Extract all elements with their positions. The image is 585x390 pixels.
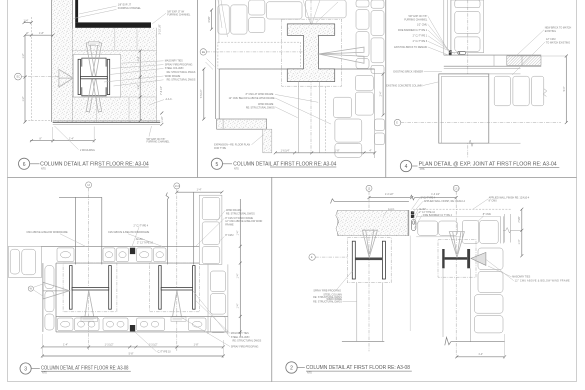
brace label box beam 1 — [81, 317, 98, 321]
svg-text:7'-5 1/4": 7'-5 1/4" — [160, 86, 163, 95]
leader 2 MOULDING — [55, 126, 79, 150]
svg-text:2'-2": 2'-2" — [137, 56, 140, 61]
centerline col 2 — [176, 189, 178, 351]
wall edge below panel 5 — [218, 69, 220, 119]
wind brace V beam 2 (gray) — [173, 290, 182, 317]
expansion joint hardware panel 2 — [411, 211, 414, 214]
sheet border right — [576, 0, 578, 382]
dash-dot rect around beam — [282, 19, 342, 86]
svg-text:2" CJ TYPE 4: 2" CJ TYPE 4 — [134, 224, 149, 227]
break zigzag right panel 4 — [543, 89, 547, 97]
svg-text:NTS: NTS — [41, 168, 46, 171]
svg-text:EXISTING: EXISTING — [545, 30, 556, 33]
column below beam 2 — [442, 268, 444, 337]
wind brace V beam 1 (gray) — [85, 290, 94, 317]
band 2 blocks — [58, 318, 207, 331]
steel column beam 1 (web dark) — [355, 258, 382, 261]
dark steel angle bar top (horizontal leg) — [75, 22, 151, 27]
steel column beam 2 (web) — [445, 257, 468, 260]
CMU blocks right mid panel 5 — [355, 75, 373, 90]
svg-text:NTS: NTS — [307, 371, 312, 374]
column bottom edge with break — [439, 140, 521, 146]
expansion joint block bottom (dark) — [130, 325, 135, 331]
right vertical dim panel 2 — [521, 209, 523, 256]
svg-text:RE: STRUCTURAL DWGS: RE: STRUCTURAL DWGS — [233, 340, 262, 343]
svg-text:COLUMN DETAIL AT FIRST FLOOR R: COLUMN DETAIL AT FIRST FLOOR RE: A3-04 — [233, 162, 336, 168]
svg-text:EXISTING BRICK VENEER: EXISTING BRICK VENEER — [393, 70, 423, 73]
svg-text:SPRAY FIRE-PROOFING: SPRAY FIRE-PROOFING — [165, 63, 193, 66]
svg-text:1'-4": 1'-4" — [237, 230, 240, 235]
bottom dim panel 5 — [275, 152, 374, 154]
annotation leader fan panel 6 — [121, 61, 164, 63]
steel column I-beam plan (speckled) — [287, 24, 334, 82]
floor slab section panel 5 — [217, 119, 267, 129]
sheet border bottom — [8, 381, 577, 383]
dim 8 / 1'-8 — [25, 34, 53, 36]
brick band plan panel 4 — [444, 54, 541, 56]
svg-text:FIRE BARRIER CJ TYPE 4: FIRE BARRIER CJ TYPE 4 — [423, 214, 453, 217]
separator line panels 6/5 — [197, 0, 199, 177]
masonry band 1 panel 3 — [42, 245, 200, 247]
svg-text:MASONRY TIES: MASONRY TIES — [165, 60, 183, 63]
dim line 2 panel 3 — [42, 355, 223, 357]
svg-text:8": 8" — [27, 32, 29, 35]
existing wall lines panel 4 — [443, 0, 445, 55]
CMU wall elevation panel 6 — [73, 28, 157, 122]
svg-text:2 MOULDING: 2 MOULDING — [80, 149, 95, 152]
leaders from top panel 5 — [303, 0, 311, 24]
broken line right panel 2 — [503, 228, 522, 234]
top dim with break panel 2 — [369, 197, 410, 199]
steel column beam 1 (flange right) — [382, 241, 385, 279]
svg-text:5: 5 — [216, 162, 219, 168]
grid bubble panel 4 — [394, 119, 401, 126]
svg-text:1'-3 1/2": 1'-3 1/2" — [105, 343, 114, 346]
bottom dim 8 / 1'-4 — [30, 140, 94, 142]
expansion joint hardware panel 4 — [449, 50, 452, 52]
svg-text:1'-3 1/2": 1'-3 1/2" — [431, 193, 440, 196]
svg-text:RE: STRUCTURAL DWGS: RE: STRUCTURAL DWGS — [226, 213, 255, 216]
CMU plan blocks right strips — [356, 0, 369, 7]
svg-text:EC: EC — [17, 76, 21, 79]
masonry band 2 panel 3 — [56, 315, 228, 317]
svg-text:1'-8": 1'-8" — [194, 343, 199, 346]
CMU block row right of joint — [416, 215, 500, 217]
dim 1'-4 top left — [24, 22, 31, 24]
svg-text:2" CJ TYPE 10: 2" CJ TYPE 10 — [137, 242, 154, 245]
svg-text:5'-4": 5'-4" — [563, 86, 566, 91]
leader 5/8 EXP bottom right — [149, 126, 152, 137]
steel column H beam 1 (flange left) — [70, 266, 73, 310]
svg-text:TO MATCH EXISTING: TO MATCH EXISTING — [546, 42, 570, 45]
right vertical dim panel 4 — [565, 56, 567, 123]
svg-text:MASONRY TIES: MASONRY TIES — [512, 276, 530, 279]
right vertical dim panel 3 — [239, 199, 241, 337]
svg-text:12" CMU ABOVE & BELOW WIND FRA: 12" CMU ABOVE & BELOW WIND FRAME — [515, 280, 570, 283]
gusset bowtie beam 1 (gray) — [43, 282, 70, 299]
svg-text:PLAN DETAIL @ EXP. JOINT AT FI: PLAN DETAIL @ EXP. JOINT AT FIRST FLOOR … — [419, 162, 557, 168]
svg-text:8" CMU: 8" CMU — [483, 213, 492, 216]
column below beam 1 — [356, 283, 358, 342]
svg-text:EXISTING BRICK TO REMAIN: EXISTING BRICK TO REMAIN — [394, 46, 427, 49]
grid bubble col 1 panel 3 — [86, 182, 92, 188]
title bubble 5 — [211, 158, 222, 169]
left vertical dim panel 5 — [203, 69, 205, 119]
steel column beam 2 (flange left) — [442, 249, 444, 268]
centerline col 1 — [88, 188, 90, 351]
svg-text:FURRING CHANNEL: FURRING CHANNEL — [404, 19, 428, 22]
separator line panels 5/4 — [385, 0, 387, 177]
svg-text:NTS: NTS — [42, 372, 47, 375]
new brick hatched block — [507, 56, 541, 66]
X wind brace (gray) bar 2 — [86, 42, 102, 112]
leader fan panel 4 — [428, 16, 448, 49]
svg-text:1'-4": 1'-4" — [69, 137, 74, 140]
svg-text:4": 4" — [369, 149, 371, 152]
svg-text:RE: STRUCTURAL DWGS: RE: STRUCTURAL DWGS — [167, 79, 196, 82]
dark steel angle bar top (vertical leg) — [75, 0, 78, 22]
grid bubble col 2 panel 3 — [174, 183, 180, 189]
AAC slab band panel 2 — [338, 210, 409, 235]
svg-text:1'-4": 1'-4" — [518, 239, 521, 244]
svg-text:3'-10 1/8": 3'-10 1/8" — [159, 24, 162, 34]
svg-text:5'-8": 5'-8" — [129, 353, 134, 356]
right vertical dim panel 5 — [382, 74, 384, 115]
svg-text:2" CJ TYPE 4: 2" CJ TYPE 4 — [421, 196, 436, 199]
wall face line below AAC band — [409, 236, 411, 331]
svg-text:COLUMN DETAIL AT FIRST FLOOR R: COLUMN DETAIL AT FIRST FLOOR RE: A3-08 — [41, 366, 129, 372]
centerline existing column panel 4 — [467, 0, 469, 158]
column strip 2 above (with break) — [166, 193, 169, 265]
svg-text:3: 3 — [24, 367, 27, 373]
svg-text:CMU ABOVE & BELOW WINDFRAME: CMU ABOVE & BELOW WINDFRAME — [26, 231, 68, 234]
steel column H section (flange right) — [107, 59, 109, 94]
top dim 1'-4 panel 3 — [177, 191, 222, 193]
svg-text:1'-8": 1'-8" — [39, 32, 44, 35]
steel column H beam 1 (web) — [72, 287, 109, 290]
svg-text:12" CMU BELOW & ABOVE WIND FRA: 12" CMU BELOW & ABOVE WIND FRAME — [229, 97, 275, 100]
floor line col 2 with break — [445, 337, 505, 345]
svg-text:CMU ABOVE & BELOW WINDFRAME: CMU ABOVE & BELOW WINDFRAME — [108, 231, 150, 234]
masonry anchor channel below web — [82, 87, 106, 96]
svg-text:2" CJ TYPE 1: 2" CJ TYPE 1 — [413, 35, 428, 38]
svg-text:A.A.C.: A.A.C. — [166, 98, 173, 101]
svg-text:APPLIED WALL FINISH, RE: 12/A1: APPLIED WALL FINISH, RE: 12/A10-4 — [424, 200, 466, 203]
svg-text:1'-3 1/2": 1'-3 1/2" — [385, 193, 394, 196]
wind brace V beam 2 (gray) panel 2 — [449, 232, 464, 258]
svg-text:FURRING CHANNEL: FURRING CHANNEL — [167, 14, 191, 17]
steel column H beam 2 (flange left) — [159, 266, 162, 310]
svg-text:EXISTING CONCRETE COLUMN: EXISTING CONCRETE COLUMN — [386, 84, 423, 87]
wall face line panel 5 — [215, 0, 217, 119]
bottom dim panel 2 — [457, 356, 505, 358]
steel column H beam 2 (web) — [161, 287, 192, 290]
leaders at wall base panel 5 — [207, 59, 215, 67]
sheet border left — [7, 0, 9, 382]
svg-text:FURRING CHANNEL: FURRING CHANNEL — [118, 7, 142, 10]
svg-text:13.3: 13.3 — [175, 185, 180, 188]
svg-text:STEEL COLUMN: STEEL COLUMN — [165, 67, 184, 70]
svg-text:WIND FRAME: WIND FRAME — [165, 75, 181, 78]
dashed CMU rect below/above wind frame — [218, 42, 301, 69]
svg-text:1'-6 1/4": 1'-6 1/4" — [281, 149, 290, 152]
svg-text:8" CMU: 8" CMU — [489, 200, 498, 203]
CMU plan blocks top-left — [218, 5, 229, 34]
steel column H section (web) — [81, 76, 108, 78]
svg-text:6: 6 — [23, 162, 26, 168]
wall sill lines — [53, 120, 161, 122]
CMU joint lines panel 6 — [73, 49, 157, 51]
column strip below floor panel 5 — [263, 129, 272, 153]
annotation leaders panel 5 — [275, 94, 318, 102]
svg-text:STEEL COLUMN: STEEL COLUMN — [231, 336, 250, 339]
svg-text:1'-2": 1'-2" — [22, 96, 25, 101]
svg-text:NTS: NTS — [420, 168, 425, 171]
wind frame gusset bowtie (gray) — [59, 69, 73, 87]
svg-text:FRAME: FRAME — [225, 223, 234, 226]
svg-text:7'-5 1/4": 7'-5 1/4" — [200, 89, 203, 98]
CMU strip panel 4 — [451, 0, 484, 53]
svg-text:1'-4": 1'-4" — [237, 273, 240, 278]
CMU plan blocks right panel 4 — [494, 76, 510, 106]
steel column beam 2 (flange right) — [467, 249, 470, 268]
masonry wall strip (section) panel 6 — [52, 0, 73, 122]
svg-text:RE: STRUCTURAL DWGS: RE: STRUCTURAL DWGS — [246, 107, 275, 110]
svg-text:8" CMU: 8" CMU — [225, 234, 234, 237]
svg-text:MASONRY TIES: MASONRY TIES — [231, 332, 249, 335]
wall line below band — [444, 68, 521, 70]
svg-text:2: 2 — [290, 366, 293, 372]
column blockout white rect panel 6 — [73, 55, 121, 98]
grid bubble col 2 panel 2 — [453, 185, 459, 191]
left CMU strip panel 3 — [42, 263, 44, 332]
steel column H section (flange left) — [78, 59, 80, 94]
svg-text:A.A.C.: A.A.C. — [388, 208, 395, 211]
right CMU strip 1 panel 3 — [199, 195, 222, 264]
wall top line panel 5 — [219, 68, 374, 70]
dash-dot rect beam 1 — [63, 263, 117, 312]
floor line col 1 — [342, 340, 384, 342]
separator line panels 3/2 — [271, 177, 273, 381]
dashed face line — [30, 17, 32, 121]
svg-text:1 1/2": 1 1/2" — [161, 116, 164, 122]
svg-text:2'-4": 2'-4" — [380, 91, 383, 96]
svg-text:1'-4": 1'-4" — [197, 189, 202, 192]
column lines below beam panel 5 — [298, 82, 300, 153]
svg-text:13.3: 13.3 — [454, 187, 459, 190]
svg-text:CJ TYPE 10: CJ TYPE 10 — [158, 351, 172, 354]
column strip 1 above — [59, 196, 102, 198]
title bubble 6 — [19, 158, 30, 169]
narrow CMU strip panel 2 — [503, 214, 505, 243]
svg-text:FIRE BARRIER CJ TYPE 1: FIRE BARRIER CJ TYPE 1 — [398, 29, 428, 32]
dash-dot rect beam 2 — [150, 263, 200, 312]
dash-dot rect beam 2 panel 2 — [438, 239, 476, 277]
small dim top left panel 5 — [211, 10, 213, 29]
X wind brace (gray) bar 1 — [86, 42, 102, 112]
wind brace bowtie (gray) panel 5 — [319, 47, 365, 54]
title bubble 3 — [20, 363, 31, 374]
existing concrete column panel 4 — [439, 74, 489, 143]
centerline col 2 panel 2 — [455, 191, 457, 358]
vertical dim left panel 6 — [24, 35, 26, 122]
wind brace V beam 1 (gray) panel 2 — [362, 230, 377, 257]
CMU block column right panel 2 — [478, 248, 503, 270]
steel column H beam 1 (flange right) — [109, 266, 112, 310]
leaders to beam 2 — [195, 300, 230, 333]
svg-text:1/2" CMU: 1/2" CMU — [417, 23, 428, 26]
masonry band 1 left tall segment — [9, 246, 42, 277]
title bubble 2 — [286, 362, 297, 373]
svg-text:1'-4": 1'-4" — [478, 353, 483, 356]
svg-text:FOR TYPE: FOR TYPE — [214, 147, 226, 150]
right CMU strip 2 panel 3 — [207, 264, 209, 334]
centerline col 1 panel 2 — [368, 191, 370, 351]
svg-text:1'-8": 1'-8" — [335, 149, 340, 152]
inner vertical dim panel 6 — [139, 51, 141, 121]
steel column beam 1 (flange left) — [352, 241, 355, 279]
svg-text:8" CMU AT WIND FRAME: 8" CMU AT WIND FRAME — [246, 93, 274, 96]
steel column H beam 2 (flange right) — [193, 266, 196, 310]
grid bubble EC — [15, 73, 22, 80]
ceiling line with break — [331, 199, 409, 204]
svg-text:NTS: NTS — [234, 168, 239, 171]
centerline vertical beam 5 — [310, 0, 312, 153]
svg-text:7 5/8": 7 5/8" — [518, 216, 521, 222]
svg-text:SPRAY FIRE-PROOFING: SPRAY FIRE-PROOFING — [313, 290, 341, 293]
svg-text:8": 8" — [40, 137, 42, 140]
band 1 blocks — [57, 248, 166, 262]
dim line 1 panel 3 — [42, 346, 223, 348]
svg-text:1'-4": 1'-4" — [237, 303, 240, 308]
svg-text:2" CJ TYPE 6: 2" CJ TYPE 6 — [413, 40, 428, 43]
svg-text:1'-4": 1'-4" — [24, 19, 29, 22]
dash-dot rect beam 1 panel 2 — [347, 238, 391, 283]
svg-text:1'-2": 1'-2" — [22, 53, 25, 58]
svg-text:FURRING CHANNEL: FURRING CHANNEL — [147, 141, 171, 144]
separator line between top and bottom halves — [8, 176, 577, 178]
dashed applied finish line — [413, 208, 511, 210]
masonry anchor channel above web — [82, 58, 106, 67]
grid bubble panel 5 — [200, 49, 206, 55]
grid bubble left panel 2 — [309, 254, 315, 260]
svg-text:1'-2": 1'-2" — [137, 84, 140, 89]
svg-text:COLUMN DETAIL AT FIRST FLOOR R: COLUMN DETAIL AT FIRST FLOOR RE: A3-08 — [306, 365, 410, 371]
masonry tie triangle beam 2 — [471, 252, 486, 265]
svg-text:COLUMN DETAIL AT FIRST FLOOR R: COLUMN DETAIL AT FIRST FLOOR RE: A3-04 — [40, 162, 149, 168]
X brace top label box — [89, 42, 99, 46]
svg-text:3 5/8": 3 5/8" — [208, 16, 211, 22]
svg-text:SPRAY FIRE-PROOFING: SPRAY FIRE-PROOFING — [231, 345, 259, 348]
svg-text:RE: STRUCTURAL DWGS: RE: STRUCTURAL DWGS — [167, 71, 196, 74]
svg-text:1'-4": 1'-4" — [63, 343, 68, 346]
title bubble 4 — [400, 160, 411, 171]
svg-text:RE: STRUCTURAL DWGS: RE: STRUCTURAL DWGS — [313, 301, 342, 304]
svg-text:EE: EE — [202, 51, 206, 54]
brace label box beam 2 — [171, 317, 186, 321]
expansion joint block top (dark) — [130, 248, 135, 254]
grid bubble col 1 panel 2 — [366, 185, 372, 191]
svg-text:4: 4 — [405, 164, 408, 170]
grid bubble left leaders panel 3 — [28, 286, 33, 291]
